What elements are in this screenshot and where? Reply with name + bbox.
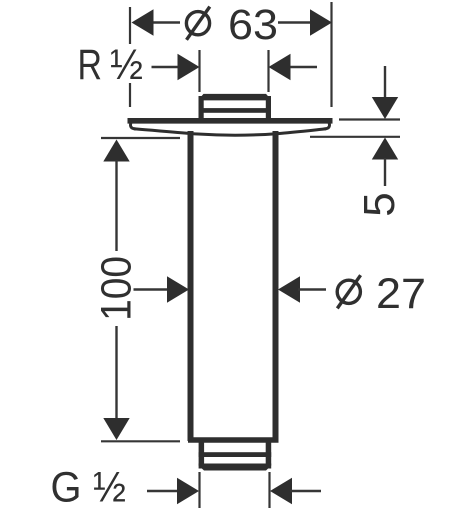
dim 5: upper arrowhead (down): [372, 97, 398, 119]
part: bottom thread left wall: [199, 443, 205, 469]
part: flange right edge tip: [324, 123, 330, 130]
dim Ø27: left arrowhead: [167, 276, 189, 302]
dim Ø27: right arrow line: [298, 288, 326, 290]
dim Ø63: left arrowhead: [132, 9, 154, 35]
dim G1/2: right extension line: [268, 472, 270, 508]
part: top thread block middle thread bar: [199, 108, 272, 113]
svg-text:½: ½: [110, 41, 143, 89]
dim 5: lower extension line: [310, 136, 400, 138]
dim R1/2: right extension line: [267, 50, 269, 92]
dim Ø27: left arrow line: [134, 288, 171, 290]
dim Ø63: right extension line: [330, 2, 332, 107]
dim 100: upper arrowhead (up): [103, 140, 129, 162]
part: top thread block top bar: [199, 94, 272, 101]
part: pipe bottom shoulder: [188, 437, 279, 443]
dim 5: lower dimension line: [384, 158, 386, 186]
dim R1/2: right arrowhead: [269, 54, 291, 80]
dim 5: lower arrowhead (up): [372, 138, 398, 160]
svg-text:G: G: [51, 464, 82, 508]
dim Ø63: right arrowhead: [310, 9, 332, 35]
part: top thread block right wall: [266, 96, 271, 121]
svg-text:R: R: [78, 41, 103, 89]
part: flange top plate: [128, 118, 333, 124]
dim G1/2: right arrowhead: [270, 478, 292, 504]
dim Ø63: left extension line: [129, 7, 131, 107]
part: flange left edge tip: [130, 123, 136, 130]
svg-text:100: 100: [93, 256, 141, 321]
svg-text:5: 5: [355, 192, 404, 216]
part: bottom thread middle thread bar: [199, 452, 272, 457]
dim G1/2: left dimension line: [147, 490, 180, 492]
svg-text:63: 63: [228, 1, 278, 49]
part: pipe left wall: [188, 131, 194, 441]
dim Ø27: right arrowhead: [278, 276, 300, 302]
dim 100: dimension line lower: [115, 326, 117, 419]
part: pipe right wall: [273, 131, 279, 441]
part: bottom thread end band: [199, 464, 272, 471]
svg-text:½: ½: [93, 464, 126, 508]
dim 100: lower extension line: [101, 440, 180, 442]
dim R1/2: left extension line: [198, 50, 200, 92]
dim Ø63: dimension line: [151, 21, 312, 23]
part: top thread block left wall: [199, 96, 204, 121]
part: bottom thread right wall: [266, 443, 272, 469]
dim 5: upper extension line: [339, 118, 400, 120]
part: flange underside: [134, 129, 326, 136]
dim G1/2: right dimension line: [290, 490, 321, 492]
dim 5: upper dimension line: [384, 66, 386, 100]
dim G1/2: left extension line: [198, 472, 200, 508]
dim 100: lower arrowhead (down): [103, 418, 129, 440]
dim G1/2: left arrowhead: [177, 478, 199, 504]
dim 100: dimension line upper: [115, 160, 117, 251]
dim R1/2: dimension line: [152, 66, 318, 68]
dim R1/2: left arrowhead: [178, 54, 200, 80]
dim Ø63: diameter symbol: [186, 7, 209, 40]
dim 100: upper extension line: [101, 137, 180, 139]
dim Ø27: diameter symbol: [337, 275, 360, 308]
svg-text:27: 27: [376, 270, 426, 318]
